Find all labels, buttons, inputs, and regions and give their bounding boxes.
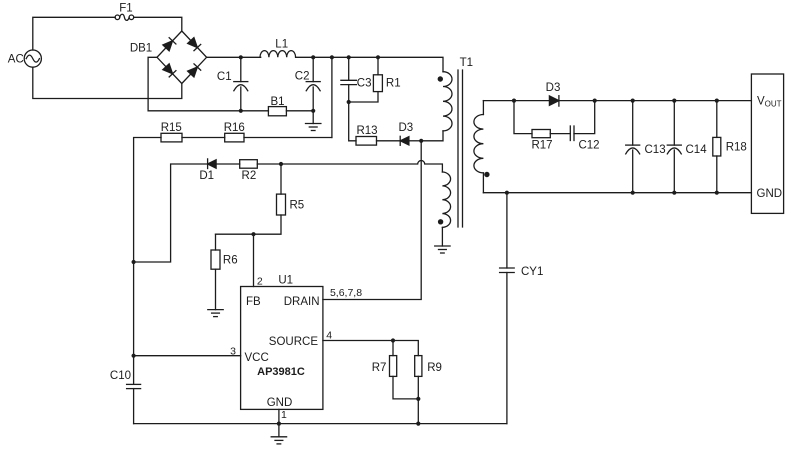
wire secondary bottom rail <box>483 192 751 194</box>
wire fuse to bridge top <box>134 17 182 31</box>
node D1 return / VCC rail <box>132 260 136 264</box>
svg-text:SOURCE: SOURCE <box>269 336 319 348</box>
pin 1 label and GND wire <box>279 409 287 424</box>
node C2 bottom / primary ground <box>311 109 315 113</box>
resistor R6 <box>211 234 238 309</box>
resistor R13 <box>356 125 400 145</box>
inductor L1 <box>260 38 296 57</box>
node R18 top <box>715 99 719 103</box>
svg-text:CY1: CY1 <box>521 266 543 278</box>
ground under R6 <box>208 310 223 317</box>
svg-text:D3: D3 <box>398 122 413 134</box>
svg-text:R17: R17 <box>531 139 552 151</box>
wire top rail down to R16 <box>331 57 333 137</box>
svg-text:R5: R5 <box>290 199 305 211</box>
resistor R9 <box>415 356 442 424</box>
capacitor C1 <box>217 57 248 111</box>
svg-text:R7: R7 <box>372 362 387 374</box>
ground under C2 <box>306 111 321 131</box>
node R7/R9 bottom <box>416 397 420 401</box>
capacitor C10 <box>110 370 141 424</box>
svg-text:F1: F1 <box>119 3 132 15</box>
resistor B1 <box>268 96 313 116</box>
pin 4 label and SOURCE wire <box>323 329 418 355</box>
resistor R18 <box>713 101 747 193</box>
bridge rectifier DB1 <box>130 31 207 84</box>
node C1 top / DC+ rail <box>239 55 243 59</box>
node clamp/drain <box>419 139 423 143</box>
node C1 bottom / DC- rail <box>239 109 243 113</box>
wire clamp node to primary bottom <box>421 131 443 141</box>
svg-text:R15: R15 <box>161 122 182 134</box>
node C3 top <box>347 55 351 59</box>
diode D1 <box>134 159 240 262</box>
transformer T1 secondary winding <box>474 101 490 193</box>
node SOURCE / R7 <box>391 338 395 342</box>
svg-text:C12: C12 <box>578 139 599 151</box>
wire bridge left vertex to DC- rail <box>148 57 268 111</box>
transformer T1 aux winding <box>438 172 451 227</box>
node GND pin 1 <box>277 422 281 426</box>
wire aux rail from R2/R5 node to aux winding (with hop) <box>281 161 442 173</box>
diode D3 (primary clamp) <box>398 122 421 145</box>
wire AC top to fuse <box>33 17 115 50</box>
resistor R15 <box>161 122 182 142</box>
svg-text:VCC: VCC <box>245 352 269 364</box>
svg-text:C14: C14 <box>686 144 708 156</box>
svg-text:D3: D3 <box>546 82 561 94</box>
svg-text:T1: T1 <box>460 57 473 69</box>
fuse F1 <box>115 3 134 21</box>
wire AC bottom to bridge <box>33 67 182 98</box>
svg-text:AC: AC <box>8 54 24 66</box>
bottom ground rail <box>134 423 507 425</box>
node C2 top <box>311 55 315 59</box>
svg-text:C10: C10 <box>110 370 131 382</box>
capacitor C12 <box>570 101 599 152</box>
resistor R2 <box>240 160 281 182</box>
svg-text:GND: GND <box>267 397 293 409</box>
pin 3 label and VCC wire <box>134 346 241 358</box>
capacitor C3 <box>341 57 372 102</box>
svg-text:R9: R9 <box>427 362 442 374</box>
diode D3 (secondary) <box>546 82 561 106</box>
wire R16 to R15 <box>182 137 225 139</box>
svg-text:2: 2 <box>257 276 263 288</box>
wire bridge right vertex to top rail <box>207 56 261 58</box>
resistor R16 <box>224 122 245 142</box>
svg-text:L1: L1 <box>275 38 288 50</box>
resistor R5 <box>216 164 305 234</box>
capacitor CY1 <box>500 193 544 424</box>
AC source <box>8 50 42 67</box>
transformer T1 core <box>458 57 473 227</box>
svg-text:R2: R2 <box>242 170 257 182</box>
svg-text:FB: FB <box>246 296 261 308</box>
svg-text:C1: C1 <box>217 71 232 83</box>
svg-text:R6: R6 <box>223 254 238 266</box>
resistor R1 <box>349 57 401 102</box>
node VCC / C10 <box>132 354 136 358</box>
node snubber bottom <box>347 100 351 104</box>
svg-text:3: 3 <box>230 346 236 358</box>
op-amp U1 AP3981C box <box>241 275 323 410</box>
svg-text:GND: GND <box>757 188 783 200</box>
resistor R7 <box>372 341 419 399</box>
node R1 top <box>376 55 380 59</box>
svg-text:1: 1 <box>281 409 287 421</box>
capacitor C13 <box>626 101 666 193</box>
resistor R17 <box>514 101 570 152</box>
node R16 feed <box>330 55 334 59</box>
svg-text:4: 4 <box>326 329 332 341</box>
node R9 / ground rail <box>416 422 420 426</box>
node C13 top <box>631 99 635 103</box>
wire R15 left, long left vertical down to C10 <box>134 138 161 385</box>
ground symbol below pin 1 <box>271 424 286 444</box>
wire L1 to primary, top rail <box>296 57 443 71</box>
transformer T1 primary winding <box>438 72 452 131</box>
node CY1 / secondary gnd <box>505 191 509 195</box>
node R2/R5 aux rail <box>279 162 283 166</box>
wire C3/R1 node down to R13 <box>349 102 356 141</box>
svg-text:D1: D1 <box>199 170 214 182</box>
svg-text:AP3981C: AP3981C <box>257 366 305 378</box>
svg-text:R13: R13 <box>356 125 377 137</box>
capacitor C14 <box>667 101 707 193</box>
svg-text:DB1: DB1 <box>130 42 152 54</box>
svg-text:C2: C2 <box>295 71 310 83</box>
wire D3 to Vout <box>559 100 752 102</box>
node C14 top <box>672 99 676 103</box>
svg-text:R18: R18 <box>726 142 747 154</box>
svg-text:C3: C3 <box>357 78 372 90</box>
node C14 bottom <box>672 191 676 195</box>
output connector box <box>751 74 783 213</box>
svg-text:VOUT: VOUT <box>757 96 782 109</box>
pin 5,6,7,8 label and DRAIN wire <box>323 141 421 300</box>
node R18 bottom <box>715 191 719 195</box>
svg-text:B1: B1 <box>270 96 284 108</box>
wire R16 rail <box>244 137 332 139</box>
svg-text:DRAIN: DRAIN <box>284 296 320 308</box>
svg-text:C13: C13 <box>645 144 666 156</box>
svg-text:R16: R16 <box>224 122 245 134</box>
node D3 cathode / snubber <box>593 99 597 103</box>
svg-text:5,6,7,8: 5,6,7,8 <box>330 287 362 299</box>
svg-text:R1: R1 <box>386 78 401 90</box>
svg-text:U1: U1 <box>278 275 293 287</box>
node C13 bottom <box>631 191 635 195</box>
wire FB node to U1 <box>253 234 255 286</box>
node D3 anode / snubber <box>512 99 516 103</box>
wire secondary top rail to D3 <box>483 100 549 102</box>
capacitor C2 <box>295 57 320 111</box>
ground under aux winding <box>435 227 450 253</box>
node FB divider <box>251 232 255 236</box>
